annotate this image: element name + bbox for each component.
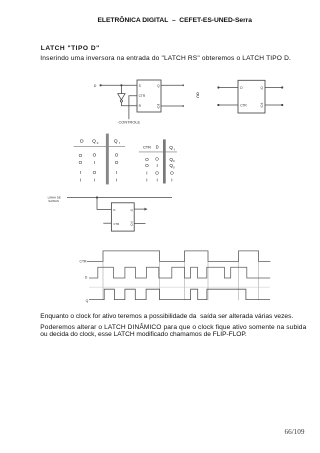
- wire junction down: [120, 85, 122, 93]
- wire Qbar out: [161, 105, 183, 107]
- wire to CTR: [219, 104, 238, 106]
- svg-text:Q: Q: [157, 105, 160, 109]
- wire output line: [67, 197, 172, 199]
- svg-text:I: I: [116, 178, 117, 183]
- svg-text:f: f: [174, 147, 175, 151]
- svg-text:I: I: [80, 170, 81, 175]
- svg-text:O: O: [115, 160, 119, 165]
- svg-text:O: O: [170, 170, 174, 175]
- junction dot: [120, 84, 122, 86]
- double column bar: [163, 139, 166, 183]
- svg-text:Q: Q: [157, 84, 160, 88]
- svg-text:I: I: [156, 178, 157, 183]
- wire Q out with arrow: [134, 208, 144, 210]
- horizontal guide line: [89, 286, 270, 288]
- latch U1 box: [137, 80, 161, 112]
- pin Qbar: [130, 222, 133, 226]
- svg-text:Q: Q: [261, 104, 264, 108]
- wire Qbar out: [134, 222, 145, 224]
- input terminal dot: [100, 84, 102, 86]
- svg-text:O: O: [145, 163, 149, 168]
- svg-text:CTR: CTR: [113, 222, 119, 226]
- header text: [98, 17, 252, 24]
- svg-text:CONTROLE: CONTROLE: [118, 119, 140, 124]
- wire Q out: [265, 87, 282, 89]
- vertical guide lines: [103, 251, 259, 300]
- table values: [79, 153, 119, 183]
- double column bar: [106, 134, 109, 185]
- svg-text:0: 0: [173, 165, 175, 169]
- svg-text:CTR: CTR: [143, 145, 151, 150]
- waveform Q: [89, 289, 270, 299]
- svg-text:Q: Q: [130, 222, 133, 226]
- svg-text:O: O: [115, 153, 119, 158]
- svg-text:I: I: [94, 160, 95, 165]
- svg-text:O: O: [93, 153, 97, 158]
- waveform CTR: [87, 251, 271, 262]
- svg-text:O: O: [155, 170, 159, 175]
- svg-text:D: D: [156, 145, 159, 150]
- table values: [145, 157, 175, 183]
- inverter gate: [118, 94, 125, 100]
- paragraph 1: [40, 55, 291, 62]
- svg-text:O: O: [145, 157, 149, 162]
- waveform D: [89, 267, 270, 278]
- paragraph 2: [40, 313, 293, 320]
- paragraph 3 line 2: [40, 331, 246, 338]
- svg-text:O: O: [93, 170, 97, 175]
- svg-text:O: O: [79, 160, 83, 165]
- pin Qbar: [157, 104, 160, 109]
- svg-text:I: I: [146, 170, 147, 175]
- svg-text:f: f: [119, 141, 120, 145]
- svg-text:Q: Q: [114, 138, 118, 144]
- svg-text:I: I: [116, 170, 117, 175]
- svg-text:Q: Q: [169, 145, 173, 150]
- svg-text:O: O: [79, 153, 83, 158]
- svg-text:D: D: [94, 84, 97, 88]
- wire Q out: [161, 84, 183, 86]
- wire D to S: [102, 84, 138, 86]
- svg-text:OU: OU: [196, 92, 200, 98]
- svg-text:Q: Q: [86, 299, 89, 303]
- wire to D: [219, 87, 238, 89]
- svg-text:Q: Q: [261, 86, 264, 90]
- paragraph 3 line 1: [40, 324, 306, 331]
- svg-text:SAIDAS: SAIDAS: [48, 199, 59, 203]
- svg-text:0: 0: [173, 159, 175, 163]
- pin Qbar: [261, 103, 264, 108]
- svg-text:I: I: [171, 178, 172, 183]
- svg-text:I: I: [146, 178, 147, 183]
- svg-text:Q: Q: [92, 138, 96, 144]
- wire inverter to R: [121, 102, 137, 106]
- svg-text:I: I: [80, 178, 81, 183]
- svg-text:0: 0: [97, 141, 99, 145]
- latch U2 box: [238, 80, 265, 113]
- svg-text:S: S: [139, 84, 141, 88]
- svg-text:D: D: [85, 275, 88, 279]
- svg-text:D: D: [113, 208, 116, 212]
- svg-text:CTR: CTR: [80, 260, 88, 264]
- wire junction to D: [97, 198, 111, 210]
- header rule: [74, 145, 125, 147]
- input terminal dot CTR: [217, 104, 219, 106]
- svg-text:D: D: [80, 138, 84, 144]
- wire CONTROLE to CTR: [129, 96, 137, 119]
- svg-text:I: I: [94, 178, 95, 183]
- svg-text:O: O: [155, 157, 159, 162]
- title: [41, 45, 100, 52]
- wire Qbar out: [265, 104, 282, 106]
- svg-text:R: R: [139, 104, 142, 108]
- input terminal dot D: [217, 86, 219, 88]
- header rule: [139, 151, 177, 153]
- wire CTR input: [103, 222, 111, 224]
- latch U3 box: [111, 203, 134, 231]
- svg-text:Q: Q: [130, 208, 133, 212]
- junction dot: [96, 196, 98, 198]
- svg-text:D: D: [240, 86, 243, 90]
- footer page number: [285, 428, 305, 436]
- svg-text:CTR: CTR: [139, 94, 146, 98]
- svg-text:CTR: CTR: [240, 103, 247, 107]
- svg-text:I: I: [156, 163, 157, 168]
